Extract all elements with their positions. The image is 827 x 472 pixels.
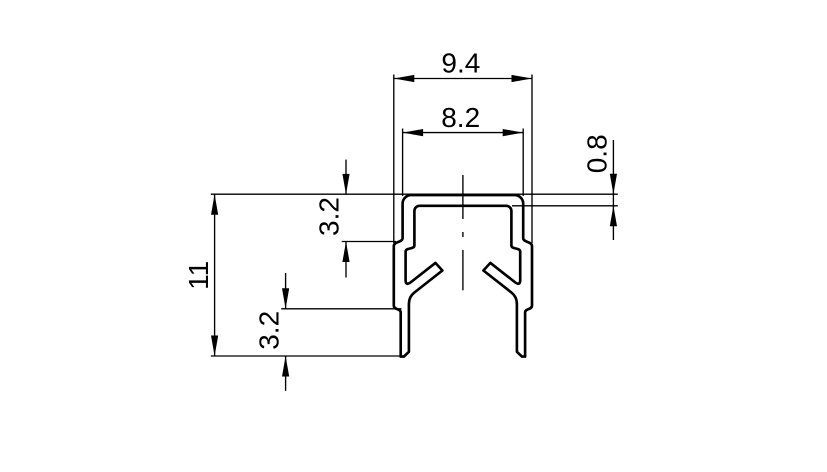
extension line 8.2 right: [522, 129, 524, 197]
dimension line 3.2 lower: [285, 273, 287, 309]
dimension line 9.4: [394, 78, 532, 80]
extension line inner top (0.8): [512, 205, 618, 207]
extension line leg step (3.2 lower): [281, 308, 401, 310]
extension line 9.4 left: [393, 75, 395, 244]
extension line 9.4 right: [531, 75, 533, 244]
extension line step (3.2 upper): [342, 241, 396, 243]
extension line 8.2 left: [402, 129, 404, 197]
svg-text:3.2: 3.2: [313, 197, 344, 236]
dimension line 3.2 upper: [345, 160, 347, 195]
extension line top shared (11 / 0.8): [211, 193, 618, 195]
center line: [462, 175, 464, 290]
profile cross-section outline: [394, 195, 532, 357]
svg-text:11: 11: [183, 261, 214, 290]
svg-text:9.4: 9.4: [441, 48, 480, 79]
svg-text:8.2: 8.2: [441, 102, 480, 133]
svg-text:3.2: 3.2: [253, 311, 284, 350]
dimension line 0.8: [612, 140, 614, 240]
dimension line 8.2: [403, 132, 524, 134]
dimension line 11: [214, 194, 216, 356]
extension line bottom shared (11 / 3.2 lower): [211, 355, 403, 357]
svg-text:0.8: 0.8: [581, 134, 612, 173]
